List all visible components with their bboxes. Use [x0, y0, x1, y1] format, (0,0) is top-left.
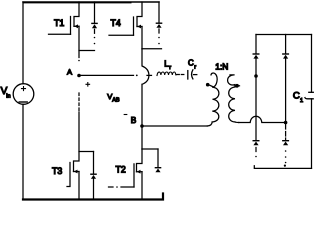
svg-text:T2: T2 — [116, 165, 126, 175]
node B — [140, 124, 144, 128]
inductor Lr — [157, 72, 176, 76]
wire node B to transformer primary — [142, 125, 207, 127]
wire rectifier bottom rail — [254, 166, 311, 169]
svg-text:1: 1 — [300, 98, 303, 104]
transformer primary polarity dot — [206, 83, 210, 87]
node A — [77, 74, 81, 78]
svg-text:r: r — [169, 65, 171, 71]
capacitor Cr — [188, 70, 197, 79]
transformer secondary polarity dot — [235, 84, 239, 88]
source Vin — [13, 84, 34, 105]
transistor T4 — [109, 2, 142, 49]
diode D5 (rectifier upper left) — [253, 35, 259, 77]
diode D2 (antiparallel of T2) — [142, 149, 161, 172]
wire right leg with crossover hop at A line — [142, 49, 149, 149]
diode D7 (rectifier lower left) — [253, 141, 259, 158]
svg-text:T4: T4 — [111, 18, 121, 28]
capacitor C1 — [305, 35, 313, 169]
svg-text:A: A — [67, 68, 73, 77]
svg-text:1:N: 1:N — [215, 62, 228, 72]
transistor T3 — [67, 112, 79, 200]
wire node A to resonant tank — [79, 74, 134, 76]
diode D6 (rectifier upper right) — [283, 35, 289, 124]
wire rectifier left branch middle — [255, 76, 257, 140]
wire rectifier top rail — [256, 34, 312, 36]
diode D3 (antiparallel of T3) — [79, 152, 96, 200]
svg-text:r: r — [194, 64, 196, 70]
svg-text:T3: T3 — [52, 166, 62, 176]
wire Lr to Cr (dashed scan) — [177, 74, 184, 76]
diode D8 (rectifier lower right) — [283, 125, 289, 167]
diode D1 (antiparallel of T1) — [79, 2, 97, 51]
wire bottom rail — [23, 194, 163, 200]
wire left border top (Vin to rail) — [22, 2, 24, 84]
svg-text:C: C — [188, 58, 194, 67]
svg-text:in: in — [6, 94, 10, 100]
diode D4 (antiparallel of T4) — [142, 2, 162, 49]
label - (VAB polarity) — [124, 114, 127, 116]
label + (VAB polarity) — [86, 83, 90, 87]
svg-text:B: B — [131, 115, 137, 125]
wire left border bottom (Vin to bottom rail) — [22, 104, 24, 199]
svg-text:T1: T1 — [54, 18, 64, 28]
transistor T1 — [49, 2, 80, 61]
node junction (secondary bottom / rectifier mid right) — [284, 121, 288, 125]
transistor T2 — [109, 149, 143, 200]
wire top rail — [23, 1, 159, 3]
transformer secondary winding — [228, 75, 239, 123]
wire secondary bottom to rectifier with hop over left branch — [239, 116, 286, 122]
wire node A to T3 drain (dashed scan) — [78, 93, 80, 111]
wire transformer secondary top stub — [235, 85, 240, 87]
svg-text:AB: AB — [112, 97, 120, 103]
svg-text:C: C — [293, 90, 300, 101]
transformer primary winding — [207, 73, 219, 126]
node junction (secondary top / rectifier mid left) — [254, 74, 258, 78]
